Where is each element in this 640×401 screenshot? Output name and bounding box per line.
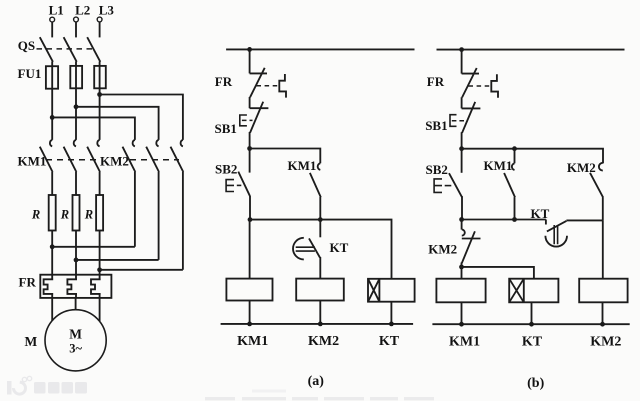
- node junction phase2: [74, 104, 79, 109]
- wire KM2 pole2 down: [158, 172, 160, 260]
- wire bottom bus (b): [432, 323, 629, 325]
- wire phase2 QS to KM1 contact: [75, 62, 77, 140]
- thermal contact FR (b): [462, 73, 479, 75]
- coil KM2 (b): [579, 279, 627, 303]
- svg-text:L2: L2: [75, 2, 90, 17]
- svg-text:KM2: KM2: [567, 160, 596, 175]
- KT delay cup (b): [545, 236, 567, 247]
- wire bus to FR contact (a): [249, 49, 251, 73]
- svg-text:M: M: [69, 327, 82, 342]
- node KT bottom (a): [389, 322, 394, 327]
- svg-text:KM2: KM2: [100, 154, 129, 169]
- coil KT (a): [368, 279, 415, 302]
- node KM1 bottom (b): [512, 217, 517, 222]
- svg-text:KM1: KM1: [449, 334, 480, 349]
- wire KM2 pole1 down: [134, 172, 136, 247]
- contactor KM1 linkage (dashed): [46, 159, 96, 161]
- wire phase3 jumper to KM2 pole3: [100, 95, 183, 140]
- node KM1 bottom bus (b): [459, 322, 464, 327]
- wire to KT coil (b): [462, 267, 534, 279]
- svg-text:SB1: SB1: [425, 118, 447, 133]
- pushbutton SB1 (a): [250, 107, 269, 109]
- auxiliary contact KM2 NC (b): [461, 220, 463, 230]
- switch QS linkage (dashed): [37, 48, 94, 50]
- auxiliary contact KM1 (b): [514, 149, 516, 164]
- contactor KM2 pole1 contact: [133, 140, 135, 147]
- terminal circle L1: [50, 17, 55, 22]
- watermark: [7, 376, 434, 400]
- KT delay cup (a): [293, 238, 304, 260]
- switch QS pole 2 blade: [64, 37, 77, 62]
- wire R3 to FR: [99, 231, 101, 275]
- svg-text:M: M: [25, 334, 38, 349]
- svg-text:R: R: [60, 208, 69, 222]
- node junction R2/KM2: [74, 258, 79, 263]
- wire L2 to QS: [75, 22, 77, 37]
- svg-text:L3: L3: [99, 2, 115, 17]
- time contact KT horizontal (b): [545, 220, 547, 225]
- FR trip linkage dashed (a): [257, 85, 280, 87]
- svg-text:(a): (a): [308, 374, 325, 389]
- motor M circle: [45, 310, 106, 371]
- wire bypass KM2 pole2: [76, 259, 159, 261]
- svg-text:KM1: KM1: [18, 154, 47, 169]
- thermal relay FR element 3: [91, 275, 101, 298]
- node KT bottom bus (b): [529, 322, 534, 327]
- auxiliary contact KM2 NO (b): [599, 163, 603, 171]
- wire FR to motor mid: [75, 298, 77, 310]
- node junction phase1: [50, 115, 55, 120]
- wire L3 to QS: [99, 22, 101, 37]
- contactor KM1 pole2 contact: [74, 140, 76, 147]
- wire top bus (b): [437, 49, 625, 51]
- switch QS pole 1 blade: [40, 37, 53, 62]
- node SB1 bottom (b): [459, 146, 464, 151]
- wire KM1 coil to bus (b): [461, 302, 463, 324]
- svg-text:KM2: KM2: [590, 334, 621, 349]
- svg-text:SB2: SB2: [215, 161, 237, 176]
- coil KM1 (a): [249, 220, 251, 279]
- svg-text:KM1: KM1: [484, 158, 513, 173]
- svg-text:KM1: KM1: [288, 158, 317, 173]
- wire L1 to QS: [51, 22, 53, 37]
- wire KM1 pole1 to resistor R1: [51, 172, 53, 195]
- wire KM2 coil to bus (a): [319, 301, 321, 324]
- contactor KM2 pole2 contact: [156, 140, 158, 147]
- contactor KM2 pole3 contact: [181, 140, 183, 147]
- wire row (a): [250, 220, 392, 279]
- wire FR to motor right: [99, 298, 101, 321]
- svg-text:FU1: FU1: [18, 66, 42, 81]
- SB1 actuator bracket (b): [450, 115, 457, 127]
- wire KT coil to bus (b): [531, 302, 533, 324]
- wire KM1 pole3 to resistor R3: [99, 172, 101, 195]
- wire KM2 contact to coil (b): [602, 220, 604, 278]
- svg-text:KT: KT: [330, 240, 349, 255]
- fuse FU1 body 1: [46, 66, 58, 89]
- wire bypass KM2 pole1: [52, 246, 135, 248]
- coil KM2 (a): [296, 279, 344, 301]
- wire phase3 QS to KM1 contact: [99, 62, 101, 140]
- wire bottom bus (a): [221, 323, 414, 325]
- terminal circle L2: [74, 17, 79, 22]
- SB2 actuator E (a): [226, 180, 234, 192]
- resistor R3: [96, 195, 103, 231]
- wire KM2 coil to bus (b): [602, 302, 604, 324]
- wire phase1 QS to KM1 contact: [51, 62, 53, 140]
- node junction R1/KM2: [50, 244, 55, 249]
- node KM1 bottom (a): [247, 322, 252, 327]
- wire KM1 pole2 to resistor R2: [75, 172, 77, 195]
- time contact KT (a): [319, 220, 321, 238]
- terminal circle L3: [97, 17, 102, 22]
- thermal relay FR element 2: [67, 275, 77, 298]
- svg-text:SB1: SB1: [215, 121, 237, 136]
- wire FR to motor left: [51, 298, 53, 321]
- node KM1 top (b): [512, 146, 517, 151]
- svg-text:(b): (b): [527, 376, 544, 391]
- node KM2 bottom bus (b): [600, 322, 605, 327]
- wire KM1 coil to bus (a): [249, 301, 251, 324]
- pushbutton SB1 (b): [462, 107, 481, 109]
- faint cut-off ghost text at bottom edge: [205, 390, 434, 401]
- svg-text:L1: L1: [49, 2, 64, 17]
- auxiliary contact KM1 (a): [318, 163, 321, 170]
- wire bypass KM2 pole3: [100, 269, 183, 271]
- wire R2 to FR: [75, 231, 77, 275]
- pushbutton SB2 (b): [461, 149, 463, 173]
- svg-text:KT: KT: [379, 334, 400, 349]
- thermal relay FR element 1: [44, 275, 54, 298]
- FR trip actuator (a): [279, 74, 286, 98]
- svg-text:R: R: [31, 208, 40, 222]
- FR trip linkage dashed (b): [469, 85, 492, 87]
- svg-text:3~: 3~: [69, 342, 82, 356]
- node KM2 NC bottom (b): [459, 265, 464, 270]
- svg-text:FR: FR: [427, 74, 445, 89]
- resistor R1: [49, 195, 56, 231]
- fuse FU1 body 2: [70, 66, 82, 88]
- fuse FU1 body 3: [94, 66, 106, 88]
- wire KT coil to bus (a): [390, 302, 392, 324]
- node junction R3/KM2: [97, 267, 102, 272]
- coil KT (b): [509, 279, 558, 303]
- wire top bus (a): [226, 48, 414, 50]
- SB1 actuator bracket (a): [240, 115, 247, 126]
- contactor KM1 pole1 contact: [50, 140, 52, 147]
- wire R1 to FR: [51, 231, 53, 275]
- svg-text:R: R: [84, 208, 93, 222]
- contactor KM1 pole3 contact: [97, 140, 99, 147]
- wire phase2 jumper to KM2 pole2: [76, 107, 159, 140]
- thermal contact FR (a): [250, 72, 267, 74]
- thermal relay FR box: [40, 275, 111, 298]
- svg-text:KT: KT: [522, 334, 543, 349]
- resistor R2: [73, 195, 80, 231]
- node SB2 bottom (a): [248, 217, 253, 222]
- node junction phase3: [97, 92, 102, 97]
- svg-text:KM2: KM2: [428, 241, 457, 256]
- wire KM2 pole3 down: [182, 172, 184, 270]
- node SB1 bottom (a): [247, 146, 252, 151]
- wire branch to KM1 contact (a): [250, 149, 321, 164]
- wire branch row (b): [462, 149, 603, 164]
- svg-text:SB2: SB2: [426, 162, 448, 177]
- SB2 actuator E (b): [434, 179, 442, 193]
- switch QS pole 3 blade: [87, 37, 100, 62]
- wire phase1 jumper to KM2 pole1: [52, 117, 135, 139]
- svg-text:KM1: KM1: [237, 334, 268, 349]
- node KM2 bottom (a): [318, 322, 323, 327]
- node top bus (a): [247, 47, 252, 52]
- coil KM1 (b): [436, 279, 485, 303]
- svg-text:KT: KT: [531, 206, 550, 221]
- node SB2 bottom (b): [459, 217, 464, 222]
- node top bus (b): [459, 47, 464, 52]
- svg-text:QS: QS: [18, 38, 35, 53]
- contactor KM2 linkage (dashed): [130, 159, 179, 161]
- node KM1 contact bottom (a): [318, 217, 323, 222]
- pushbutton SB2 (a): [249, 149, 251, 173]
- wire bus to FR contact (b): [461, 50, 463, 74]
- FR trip actuator (b): [491, 74, 498, 98]
- svg-text:KM2: KM2: [308, 334, 339, 349]
- wire row2 (b): [462, 219, 546, 221]
- svg-text:FR: FR: [19, 275, 37, 290]
- svg-text:FR: FR: [215, 74, 233, 89]
